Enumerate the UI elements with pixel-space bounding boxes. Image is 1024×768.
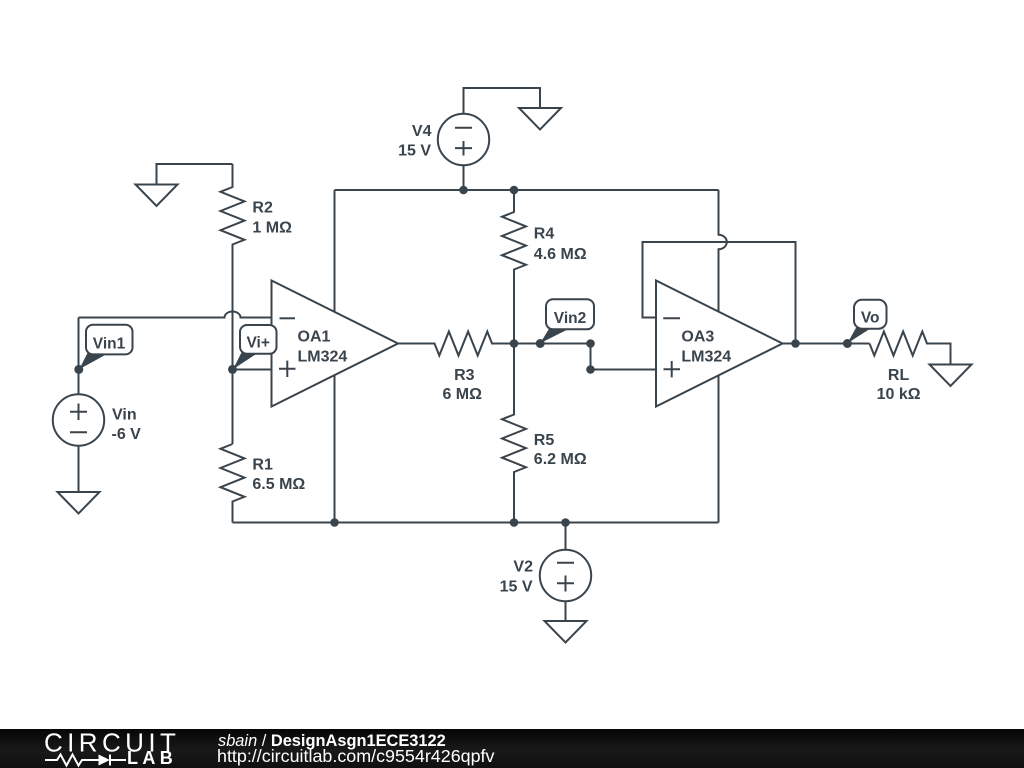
- svg-text:15 V: 15 V: [500, 579, 533, 596]
- wire: V4 top to ground: [464, 88, 541, 114]
- svg-text:15 V: 15 V: [398, 143, 431, 160]
- wire: OA3 power column: [719, 190, 727, 523]
- label R4 4.6 Mohm: [534, 226, 587, 263]
- label R5 6.2 Mohm: [534, 432, 587, 468]
- resistor R1 6.5M: [221, 444, 245, 523]
- svg-text:6.5 MΩ: 6.5 MΩ: [252, 476, 305, 493]
- svg-text:RL: RL: [888, 367, 910, 384]
- wire: V2 to ground: [565, 602, 567, 622]
- wire: V4 bottom to top rail: [463, 165, 465, 190]
- node dot OA1 power / bottom rail: [330, 518, 339, 527]
- svg-text:R4: R4: [534, 226, 555, 243]
- ground (V4): [519, 108, 561, 130]
- wire: OA3 output: [783, 343, 870, 345]
- node Vin1 flag: [79, 325, 132, 370]
- svg-text:Vin1: Vin1: [93, 335, 126, 352]
- svg-text:Vin2: Vin2: [554, 310, 586, 327]
- label R1 6.5 Mohm: [252, 456, 305, 493]
- svg-text:4.6 MΩ: 4.6 MΩ: [534, 246, 587, 263]
- node dot V2 / bottom rail: [561, 518, 570, 527]
- voltage source V2 15V: [500, 550, 592, 601]
- svg-text:R2: R2: [252, 199, 273, 216]
- node Vo anchor dot: [843, 339, 852, 348]
- node dot R3/R4/R5 junction: [510, 339, 519, 348]
- wire: OA3 feedback (minus input to output) with hop over power column: [643, 242, 796, 344]
- wire: bottom power rail (V-): [233, 522, 719, 524]
- resistor R3 6M: [398, 332, 540, 356]
- resistor R5 6.2M: [502, 344, 526, 523]
- wire: top power rail (V+): [335, 189, 719, 191]
- node Vin2 anchor dot: [536, 339, 545, 348]
- node dot R5 / bottom rail: [510, 518, 519, 527]
- footer title text: [218, 733, 446, 749]
- wire: Vin vertical branch: [78, 318, 80, 395]
- ground (V2): [545, 621, 587, 643]
- ground (RL): [930, 365, 972, 387]
- voltage source Vin -6V: [53, 394, 141, 445]
- svg-text:6 MΩ: 6 MΩ: [442, 386, 482, 403]
- svg-text:LAB: LAB: [127, 748, 177, 768]
- footer url text: [217, 748, 494, 764]
- node Vin2 flag: [540, 299, 594, 343]
- svg-text:R1: R1: [252, 456, 273, 473]
- svg-text:OA1: OA1: [298, 328, 331, 345]
- label R2 1 Mohm: [252, 199, 292, 236]
- svg-text:V2: V2: [513, 559, 533, 576]
- svg-text:R5: R5: [534, 432, 555, 449]
- node dot output/feedback junction: [791, 339, 800, 348]
- op-amp OA3 LM324: [656, 281, 783, 407]
- label RL 10 kohm: [877, 367, 921, 403]
- voltage source V4 15V: [398, 114, 489, 165]
- svg-text:Vo: Vo: [861, 310, 880, 327]
- wire: OA1 power column: [334, 190, 336, 523]
- svg-text:Vin: Vin: [112, 407, 137, 424]
- wire: Vi+ node to OA1 plus input: [233, 369, 272, 371]
- node dot jog corner top: [586, 339, 595, 348]
- svg-text:LM324: LM324: [681, 348, 731, 365]
- svg-text:-6 V: -6 V: [112, 426, 142, 443]
- svg-text:OA3: OA3: [681, 328, 714, 345]
- node dot R4/rail: [510, 186, 519, 195]
- CircuitLab logo: [0, 729, 200, 768]
- node Vi+ anchor dot (junction): [228, 365, 237, 374]
- node Vo flag: [847, 300, 886, 344]
- ground (Vin): [58, 492, 100, 514]
- svg-text:LM324: LM324: [298, 348, 348, 365]
- svg-text:R3: R3: [454, 367, 475, 384]
- svg-text:V4: V4: [412, 123, 432, 140]
- op-amp OA1 LM324: [272, 281, 399, 407]
- svg-text:6.2 MΩ: 6.2 MΩ: [534, 451, 587, 468]
- wire: Vin2 node to OA3 plus input (jog): [540, 344, 656, 370]
- node Vi+ flag: [233, 325, 277, 369]
- node Vin1 anchor dot: [74, 365, 83, 374]
- ground (R2): [136, 185, 178, 207]
- svg-text:Vi+: Vi+: [246, 335, 269, 352]
- resistor R2 1M, with column wire down to R1: [221, 164, 245, 444]
- wire: bottom rail to V2: [565, 523, 567, 550]
- wire: Vin to ground: [78, 446, 80, 493]
- resistor R4 4.6M: [502, 190, 526, 344]
- resistor RL 10k: [870, 332, 951, 365]
- wire: R2 top to ground: [157, 164, 233, 185]
- node dot V4/rail: [459, 186, 468, 195]
- wire: Vin1 to OA1 minus input with hop over R2 column: [79, 312, 272, 318]
- svg-text:10 kΩ: 10 kΩ: [877, 386, 921, 403]
- label R3 6 Mohm: [442, 367, 482, 403]
- svg-text:1 MΩ: 1 MΩ: [252, 220, 292, 237]
- node dot jog corner bottom: [586, 365, 595, 374]
- footer bar: [0, 729, 1024, 768]
